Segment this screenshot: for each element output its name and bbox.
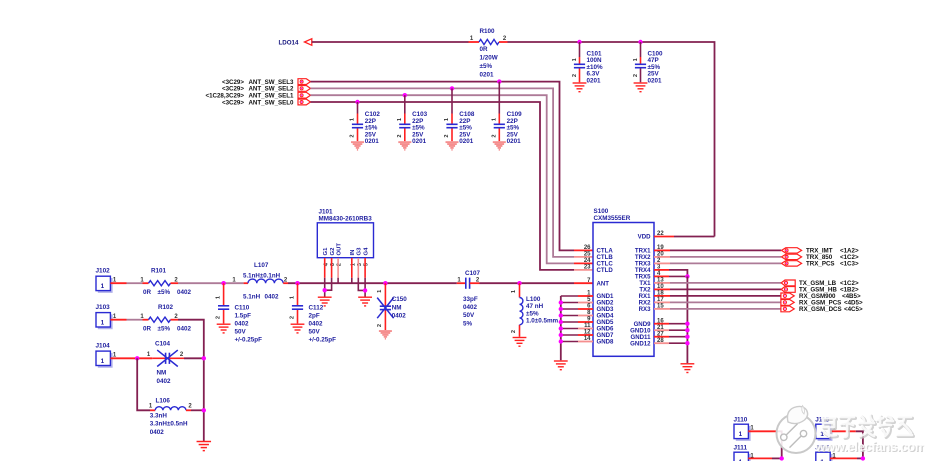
svg-text:1.0±0.5mm: 1.0±0.5mm — [526, 318, 559, 325]
capacitor C103 — [399, 124, 410, 127]
svg-text:22: 22 — [657, 231, 664, 237]
port RX_GSM_DCS — [781, 306, 794, 312]
svg-text:±5%: ±5% — [480, 63, 493, 70]
pin 15 RX3 wire to RX_GSM_DCS — [654, 308, 670, 310]
svg-text:5.1nH: 5.1nH — [243, 294, 261, 301]
svg-text:0402: 0402 — [392, 313, 407, 320]
svg-text:L100: L100 — [526, 296, 541, 303]
capacitor C109 — [494, 124, 505, 127]
svg-text:GND12: GND12 — [630, 340, 651, 347]
wire C107 to ANT — [480, 282, 575, 284]
capacitor C107 — [457, 282, 466, 284]
junction L100 — [517, 281, 521, 285]
svg-text:±5%: ±5% — [158, 326, 171, 333]
wire R101 to L107 — [178, 282, 244, 284]
wire ANT_SW_SEL2 to S100 — [311, 88, 575, 257]
wire R102 to ground rail — [178, 320, 204, 441]
wire J115 — [830, 430, 856, 432]
svg-text:0201: 0201 — [648, 78, 663, 85]
svg-text:1: 1 — [216, 296, 222, 299]
svg-text:<1C3>: <1C3> — [840, 261, 859, 268]
capacitor C100 wire — [640, 42, 642, 57]
connector J115 — [818, 426, 832, 440]
svg-text:S100: S100 — [594, 208, 609, 215]
junction C102 — [355, 100, 359, 104]
capacitor C100 — [635, 64, 646, 67]
svg-text:5.1nH±0.1nH: 5.1nH±0.1nH — [243, 273, 281, 280]
svg-text:<4C5>: <4C5> — [844, 306, 863, 313]
svg-text:2: 2 — [350, 134, 356, 137]
junction C150 — [383, 281, 387, 285]
svg-text:+/-0.25pF: +/-0.25pF — [235, 337, 263, 344]
svg-text:J103: J103 — [96, 304, 111, 311]
ground at C150 — [379, 330, 392, 340]
svg-text:0R: 0R — [143, 289, 152, 296]
resistor R100 pin1 lead — [469, 41, 480, 43]
wire J110 — [748, 430, 777, 432]
connector J111 — [736, 454, 750, 461]
capacitor C112 — [292, 306, 303, 309]
svg-text:J104: J104 — [96, 342, 111, 349]
svg-text:TRX_PCS: TRX_PCS — [806, 261, 835, 268]
pin stub CTLA — [574, 249, 593, 251]
wire J111 — [748, 457, 772, 459]
wire ANT_SW_SEL0 to S100 — [311, 102, 575, 270]
junction C103 — [403, 93, 407, 97]
svg-text:0402: 0402 — [309, 321, 324, 328]
svg-text:G2: G2 — [330, 247, 336, 256]
svg-text:0402: 0402 — [235, 321, 250, 328]
svg-text:LDO14: LDO14 — [279, 39, 300, 46]
svg-text:50V: 50V — [309, 329, 321, 336]
junction J115/J116 — [861, 456, 865, 460]
svg-text:±5%: ±5% — [526, 310, 539, 317]
inductor L107 — [244, 282, 248, 284]
svg-text:15: 15 — [657, 304, 664, 310]
svg-text:RX_GSM_DCS: RX_GSM_DCS — [799, 306, 842, 313]
inductor L100 wire — [519, 283, 521, 297]
svg-text:2: 2 — [289, 316, 295, 319]
pin 13 TX1 wire to TX_GSM_LB — [654, 282, 670, 284]
svg-text:1: 1 — [101, 358, 105, 365]
svg-text:5%: 5% — [463, 320, 473, 327]
pin stub CTLC — [574, 262, 593, 264]
capacitor C150 wire — [384, 283, 386, 306]
ground at C110 — [217, 324, 231, 333]
svg-text:0201: 0201 — [459, 138, 474, 145]
svg-text:50V: 50V — [463, 312, 475, 319]
svg-text:MM8430-2610RB3: MM8430-2610RB3 — [319, 216, 373, 223]
port TRX_IMT — [782, 248, 802, 253]
wire J104 to C104 — [110, 357, 152, 359]
svg-text:26: 26 — [584, 245, 591, 251]
pin 3 TRX4 wire — [654, 269, 669, 271]
pin 5 GND wire — [578, 302, 593, 304]
capacitor C108 — [446, 124, 457, 127]
svg-text:±5%: ±5% — [158, 289, 171, 296]
capacitor C108 wire — [451, 88, 453, 113]
svg-text:1: 1 — [397, 118, 403, 121]
connector J110 — [736, 426, 750, 440]
svg-text:J101: J101 — [319, 209, 334, 216]
junction J104-L106 — [135, 356, 139, 360]
svg-text:2: 2 — [633, 74, 639, 77]
capacitor C101 — [574, 64, 585, 67]
junction at C101 — [577, 40, 581, 44]
svg-text:0R: 0R — [480, 46, 489, 53]
capacitor C102 wire — [357, 102, 359, 114]
port RX_GSM900 — [781, 293, 794, 299]
svg-text:G4: G4 — [364, 247, 370, 256]
wire J116 — [830, 457, 857, 459]
svg-text:23: 23 — [584, 265, 591, 271]
svg-text:G1: G1 — [323, 247, 329, 256]
svg-text:1: 1 — [289, 296, 295, 299]
svg-text:RX3: RX3 — [639, 306, 651, 313]
ground at C112 — [291, 324, 305, 333]
svg-text:C107: C107 — [465, 270, 481, 277]
ground at C109 — [493, 141, 506, 151]
capacitor C150 — [380, 306, 391, 309]
inductor L100 — [520, 298, 523, 325]
junction J101 left ground — [323, 288, 327, 292]
port ANT_SW_SEL0 — [298, 99, 311, 105]
wire R100 to top-right corner — [508, 42, 715, 237]
svg-text:20: 20 — [657, 252, 664, 258]
svg-text:0201: 0201 — [507, 138, 522, 145]
wire J101 G4 to ground — [364, 278, 366, 297]
svg-text:10: 10 — [657, 284, 664, 290]
svg-text:0402: 0402 — [177, 289, 192, 296]
svg-text:13: 13 — [657, 278, 664, 284]
svg-text:0201: 0201 — [365, 138, 380, 145]
svg-text:28: 28 — [657, 338, 664, 344]
port ANT_SW_SEL3 — [298, 79, 311, 85]
svg-text:2: 2 — [377, 324, 383, 327]
svg-text:16: 16 — [657, 318, 664, 324]
svg-text:www.elecfans.com: www.elecfans.com — [814, 439, 925, 454]
pin stub CTLD — [574, 269, 593, 271]
wire J102 to R101 — [110, 282, 126, 284]
svg-text:1: 1 — [350, 118, 356, 121]
junction C104 right — [202, 356, 206, 360]
junction C110 — [221, 281, 225, 285]
svg-text:2: 2 — [444, 134, 450, 137]
svg-text:0402: 0402 — [157, 378, 172, 385]
wire J101 G1 to ground — [324, 278, 326, 297]
svg-text:2pF: 2pF — [309, 312, 320, 319]
pin 8 GND wire — [578, 315, 593, 317]
svg-text:ANT: ANT — [597, 280, 610, 287]
svg-text:47 nH: 47 nH — [526, 303, 544, 310]
junction J110/J111 — [780, 456, 784, 460]
svg-text:2: 2 — [511, 330, 517, 333]
svg-text:1: 1 — [444, 118, 450, 121]
svg-text:0402: 0402 — [150, 429, 165, 436]
svg-text:2: 2 — [572, 74, 578, 77]
svg-text:1/20W: 1/20W — [480, 55, 498, 62]
svg-text:33pF: 33pF — [463, 296, 478, 303]
pin 22 VDD wire — [654, 236, 674, 238]
pin 19 TRX1 wire to TRX_IMT — [654, 249, 670, 251]
resistor R102 — [143, 319, 149, 321]
junction at C100 — [638, 40, 642, 44]
svg-text:J111: J111 — [734, 445, 748, 452]
connector J103 — [98, 314, 112, 328]
svg-text:14: 14 — [584, 336, 591, 342]
svg-text:C112: C112 — [309, 304, 324, 311]
pin 6 GND wire — [578, 308, 593, 310]
wire J101 OUT to line — [337, 278, 339, 283]
svg-text:OUT: OUT — [337, 243, 343, 256]
svg-text:12: 12 — [584, 330, 591, 336]
svg-text:J110: J110 — [734, 417, 748, 424]
wire L106 to ground rail — [186, 409, 191, 411]
svg-text:17: 17 — [657, 297, 664, 303]
port ANT_SW_SEL2 — [298, 86, 311, 92]
connector J102 — [98, 278, 112, 292]
svg-text:1: 1 — [633, 58, 639, 61]
pin 11 GND wire — [578, 328, 593, 330]
ground at J101 G3/G4 — [358, 297, 372, 306]
svg-text:25: 25 — [584, 252, 591, 258]
capacitor C103 wire — [404, 95, 406, 113]
capacitor C102 — [352, 124, 363, 127]
ground at J101 G1/G2 — [318, 297, 332, 306]
inductor L106 — [150, 409, 155, 411]
pin 14 GND wire — [578, 341, 593, 343]
capacitor C104 — [152, 357, 165, 359]
ground at C102 — [351, 141, 364, 151]
junction C108 — [450, 86, 454, 90]
svg-text:1: 1 — [101, 319, 105, 326]
svg-text:1: 1 — [377, 290, 383, 293]
wire J101 IN to line — [351, 278, 353, 283]
port TX_GSM_LB — [781, 280, 795, 286]
svg-text:24: 24 — [584, 258, 591, 264]
svg-text:R102: R102 — [158, 304, 174, 311]
capacitor C112 wire — [297, 283, 299, 306]
svg-text:GND8: GND8 — [597, 339, 615, 346]
capacitor C101 wire — [579, 42, 581, 57]
ground at right GND bus — [681, 364, 695, 373]
svg-text:C110: C110 — [235, 304, 250, 311]
connector J104 — [98, 353, 112, 367]
svg-text:G3: G3 — [357, 247, 363, 256]
svg-text:1: 1 — [101, 283, 105, 290]
svg-text:L106: L106 — [156, 398, 171, 405]
wire GND bus right — [686, 276, 688, 363]
wire ANT_SW_SEL3 to S100 — [311, 82, 575, 251]
pin 17 RX2 wire to RX_GSM_PCS — [654, 301, 670, 303]
svg-text:27: 27 — [657, 331, 664, 337]
svg-text:+/-0.25pF: +/-0.25pF — [309, 337, 337, 344]
svg-text:1: 1 — [572, 58, 578, 61]
svg-text:R100: R100 — [480, 28, 496, 35]
svg-text:1.5pF: 1.5pF — [235, 312, 252, 319]
wire J101 G3 to ground — [358, 278, 365, 291]
capacitor C109 wire — [498, 82, 500, 114]
junction TRX5 — [685, 274, 689, 278]
pin 9 GND wire — [578, 321, 593, 323]
pin 2 TRX3 wire to TRX_PCS — [654, 262, 670, 264]
svg-text:L107: L107 — [254, 262, 269, 269]
svg-text:0R: 0R — [143, 326, 152, 333]
wire LDO14 to R100 — [312, 41, 469, 43]
ground at left GND bus — [554, 361, 568, 370]
wire C104 to ground rail — [184, 357, 204, 359]
ground at C100 — [634, 83, 648, 92]
svg-text:50V: 50V — [235, 329, 247, 336]
svg-text:21: 21 — [657, 325, 664, 331]
svg-text:1: 1 — [739, 431, 743, 438]
svg-text:ANT_SW_SEL0: ANT_SW_SEL0 — [248, 99, 294, 106]
resistor R101 — [143, 282, 149, 284]
port ANT_SW_SEL1 — [298, 92, 311, 98]
svg-text:3.3nH: 3.3nH — [150, 412, 168, 419]
ground at C103 — [398, 141, 411, 151]
junction C109 — [497, 79, 501, 83]
ground at C108 — [446, 141, 459, 151]
pin 20 TRX2 wire to TRX_850 — [654, 256, 670, 258]
port RX_GSM_PCS — [781, 300, 794, 306]
pin stub CTLB — [574, 256, 593, 258]
pin 10 TX2 wire to TX_GSM_HB — [654, 288, 670, 290]
capacitor C110 — [218, 306, 229, 309]
svg-text:NM: NM — [157, 370, 167, 377]
svg-text:2: 2 — [397, 134, 403, 137]
svg-text:C150: C150 — [392, 296, 408, 303]
svg-text:R101: R101 — [151, 267, 167, 274]
svg-text:CXM3555ER: CXM3555ER — [594, 215, 631, 222]
pin 21 GND wire — [654, 329, 669, 331]
svg-text:VDD: VDD — [638, 234, 651, 241]
svg-text:18: 18 — [657, 291, 664, 297]
svg-text:1: 1 — [492, 118, 498, 121]
pin stub ANT — [574, 282, 593, 284]
svg-text:<3C29>: <3C29> — [222, 99, 244, 106]
watermark logo — [777, 406, 816, 454]
pin 4 TRX5 wire — [654, 275, 669, 277]
pin 28 GND wire — [654, 342, 669, 344]
svg-text:NM: NM — [392, 304, 402, 311]
pin 16 GND wire — [654, 323, 669, 325]
svg-text:1: 1 — [511, 290, 517, 293]
wire ANT_SW_SEL1 to S100 — [311, 95, 575, 263]
capacitor C110 wire — [223, 283, 225, 306]
pin 12 GND wire — [578, 334, 593, 336]
svg-text:11: 11 — [584, 323, 591, 329]
svg-text:0402: 0402 — [265, 294, 280, 301]
svg-text:0402: 0402 — [463, 304, 478, 311]
wire J104 down to L106 — [137, 358, 150, 410]
off-page arrow LDO14 — [305, 39, 312, 46]
ground of J103/J104 branch — [197, 442, 211, 451]
svg-text:0201: 0201 — [412, 138, 427, 145]
wire GND bus left — [560, 296, 562, 360]
pin 18 RX1 wire to RX_GSM900 — [654, 295, 670, 297]
watermark chinese text — [823, 416, 913, 438]
svg-text:2: 2 — [492, 134, 498, 137]
port TRX_PCS — [782, 261, 802, 266]
svg-text:IN: IN — [350, 250, 356, 256]
resistor R100 — [479, 39, 499, 44]
wire J101 G2 to ground — [325, 278, 332, 290]
svg-text:2: 2 — [216, 316, 222, 319]
ground at C101 — [573, 83, 587, 92]
svg-text:0201: 0201 — [587, 78, 602, 85]
svg-text:19: 19 — [657, 245, 664, 251]
svg-text:C104: C104 — [155, 341, 171, 348]
svg-text:J102: J102 — [96, 268, 111, 275]
svg-text:3.3nH±0.5nH: 3.3nH±0.5nH — [150, 421, 188, 428]
svg-text:0402: 0402 — [177, 326, 192, 333]
pin 1 GND wire — [578, 295, 593, 297]
ground at L100 — [513, 338, 527, 347]
wire J103 to R102 — [110, 319, 126, 321]
svg-text:CTLD: CTLD — [597, 267, 614, 274]
resistor R100 pin2 lead — [499, 41, 508, 43]
junction C112 — [295, 281, 299, 285]
port TX_GSM_HB — [781, 287, 795, 293]
pin 27 GND wire — [654, 336, 669, 338]
port TRX_850 — [782, 254, 802, 259]
svg-text:0201: 0201 — [480, 71, 495, 78]
connector J116 — [818, 454, 832, 461]
wire L107 to C107 — [283, 282, 288, 284]
junction L106 right — [202, 408, 206, 412]
junction J101 right ground — [363, 288, 367, 292]
